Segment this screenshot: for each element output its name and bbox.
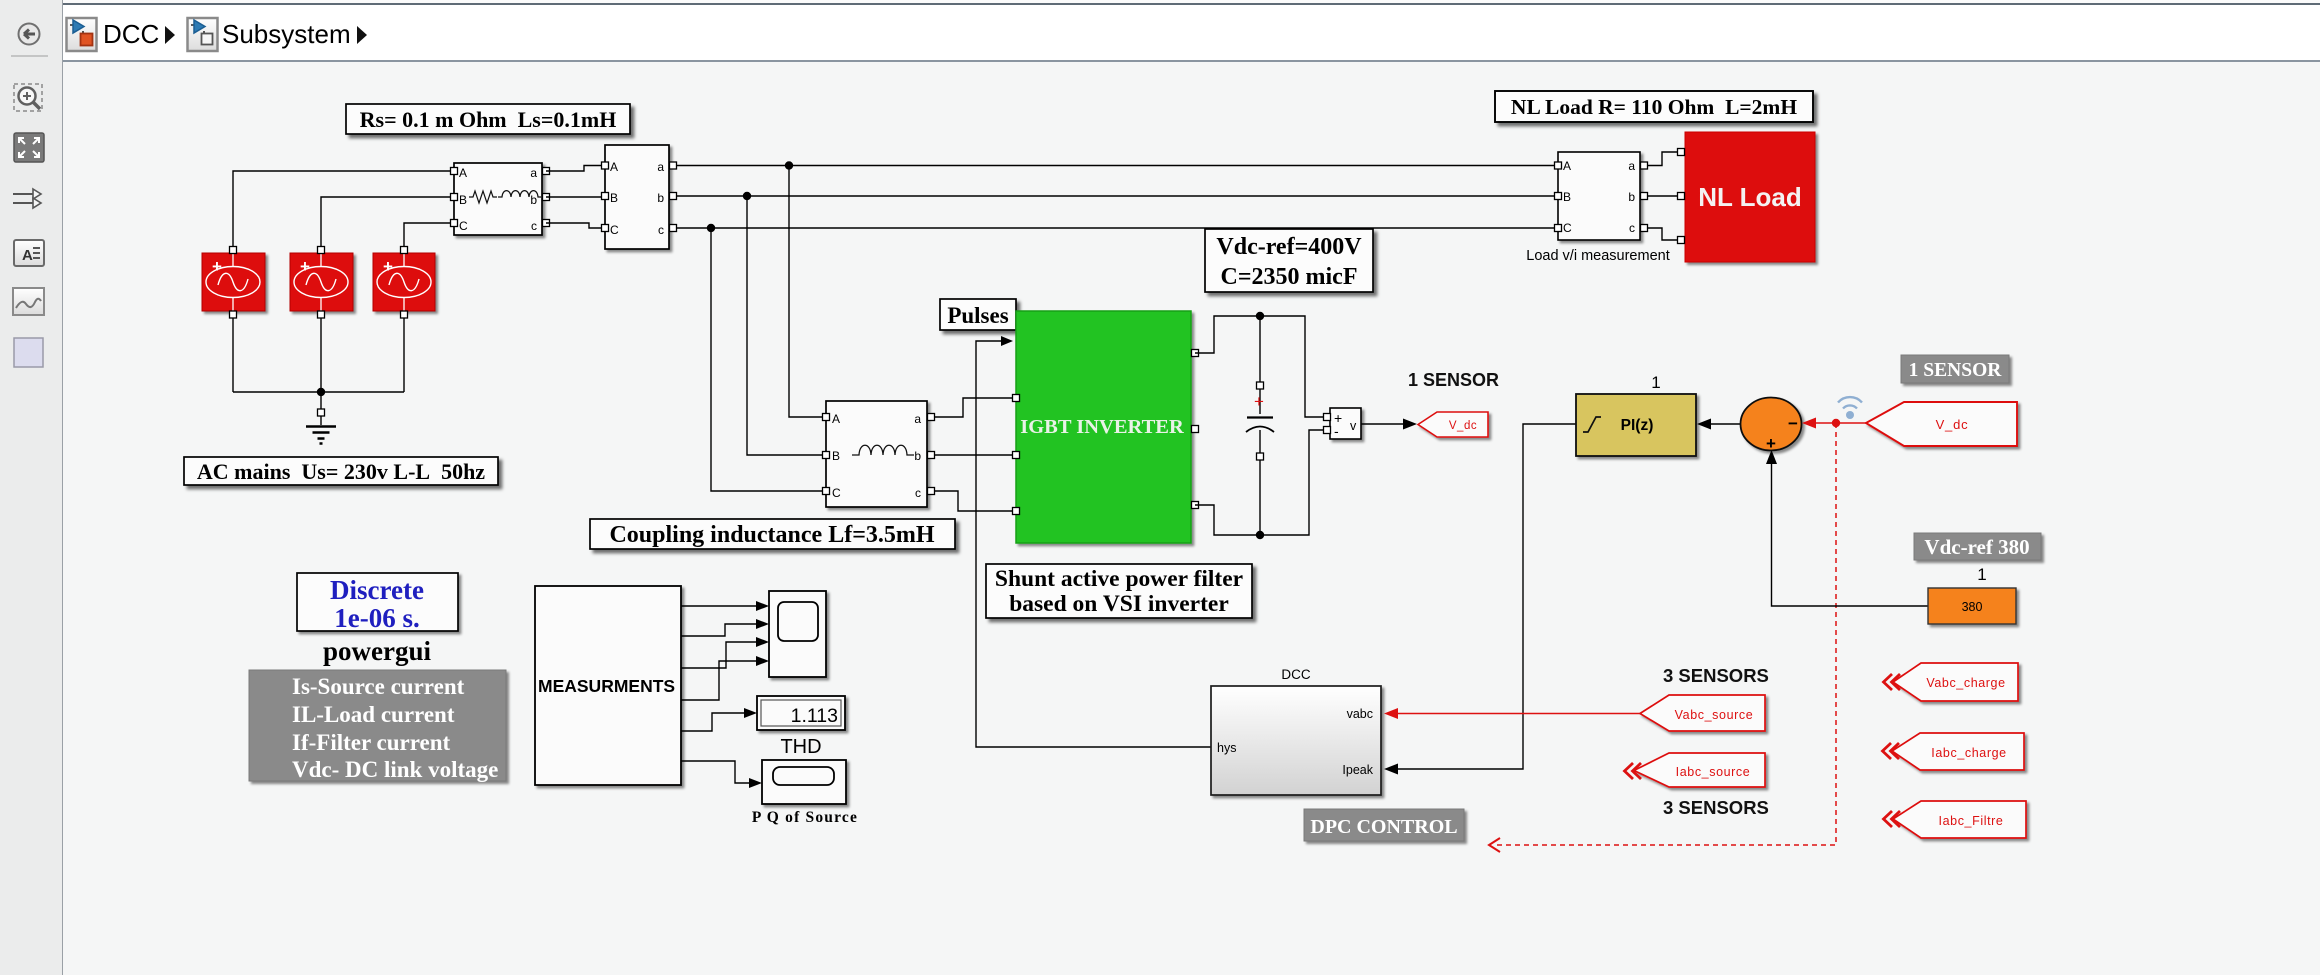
- from tag Iabc_source: [1625, 753, 1766, 787]
- toolbar signal-lines icon: [13, 189, 41, 208]
- svg-text:+: +: [1254, 392, 1264, 411]
- toolbar back button: [19, 24, 40, 45]
- svg-text:a: a: [530, 166, 537, 180]
- svg-text:a: a: [914, 412, 921, 426]
- wifi logging badge: [1838, 397, 1862, 419]
- svg-text:PI(z): PI(z): [1621, 417, 1654, 434]
- label Shunt active power filter based on VSI inverter: [986, 564, 1252, 618]
- from tag V_dc big: [1866, 402, 2017, 446]
- wire v to V_dc goto: [1361, 423, 1404, 425]
- wire MEAS out6 to PQ scope: [681, 761, 750, 783]
- svg-text:B: B: [1563, 190, 1571, 204]
- svg-text:B: B: [459, 193, 467, 207]
- svg-text:-: -: [1334, 423, 1339, 439]
- toolbar annotation icon: [14, 240, 44, 266]
- svg-text:Ipeak: Ipeak: [1342, 763, 1373, 777]
- svg-text:c: c: [531, 219, 537, 233]
- svg-text:NL Load: NL Load: [1698, 182, 1802, 212]
- svg-text:Coupling inductance Lf=3.5mH: Coupling inductance Lf=3.5mH: [609, 522, 934, 548]
- svg-text:IL-Load current: IL-Load current: [292, 702, 455, 727]
- red arrowhead vabc: [1384, 708, 1398, 719]
- wire b to coupling B: [747, 196, 822, 455]
- junction capacitor bottom: [1256, 531, 1264, 539]
- svg-text:b: b: [530, 193, 537, 207]
- port square sources: [230, 247, 408, 417]
- wire load b to NL Load: [1647, 195, 1678, 197]
- junction a: [785, 161, 793, 169]
- goto tag V_dc: [1418, 412, 1488, 437]
- junction sources neutral: [317, 388, 325, 396]
- svg-text:C: C: [610, 223, 619, 237]
- svg-text:Iabc_charge: Iabc_charge: [1931, 746, 2006, 760]
- svg-text:C: C: [459, 219, 468, 233]
- wire a to coupling A: [789, 166, 822, 418]
- AC source V3: [373, 253, 435, 311]
- arrowhead into PI: [1697, 419, 1711, 430]
- svg-text:A: A: [832, 412, 840, 426]
- three-phase VI measurement source: [602, 145, 677, 249]
- svg-text:+: +: [383, 257, 393, 276]
- svg-text:C: C: [832, 486, 841, 500]
- toolbar area icon: [14, 338, 43, 367]
- wire load a to NL Load: [1647, 152, 1678, 166]
- svg-text:THD: THD: [780, 736, 821, 758]
- svg-text:Iabc_source: Iabc_source: [1676, 765, 1751, 779]
- label NL Load R= 110 Ohm L=2mH: [1495, 91, 1813, 122]
- svg-text:C=2350 micF: C=2350 micF: [1221, 264, 1358, 290]
- wire DCC hys to IGBT pulses: [976, 341, 1211, 747]
- junction red V_dc: [1832, 419, 1840, 427]
- wire RLC b to VI1 B: [546, 196, 601, 198]
- svg-text:If-Filter current: If-Filter current: [292, 730, 451, 755]
- svg-text:b: b: [914, 449, 921, 463]
- svg-text:A: A: [459, 166, 467, 180]
- svg-text:IGBT INVERTER: IGBT INVERTER: [1020, 416, 1184, 438]
- wire phase a: [676, 165, 1554, 167]
- svg-text:DCC: DCC: [103, 19, 159, 49]
- voltage measurement block: [1324, 408, 1362, 439]
- svg-text:a: a: [1628, 159, 1635, 173]
- label AC mains Us= 230v L-L 50hz: [184, 457, 498, 485]
- svg-text:Vdc- DC link voltage: Vdc- DC link voltage: [292, 757, 498, 782]
- wire source1 to RLC A: [233, 171, 450, 250]
- from tag Vabc_source: [1640, 695, 1765, 731]
- svg-text:Iabc_Filtre: Iabc_Filtre: [1939, 814, 2004, 828]
- svg-text:Shunt active power filter: Shunt active power filter: [995, 566, 1243, 592]
- wire MEAS out5 to display: [681, 713, 745, 731]
- wire source2 to RLC B: [321, 197, 450, 250]
- svg-text:Pulses: Pulses: [947, 303, 1008, 328]
- breadcrumb DCC icon: [67, 18, 97, 51]
- junction b: [743, 192, 751, 200]
- wire phase b: [676, 195, 1554, 197]
- load v/i measurement block: [1555, 152, 1648, 240]
- svg-text:b: b: [1628, 190, 1635, 204]
- svg-text:V_dc: V_dc: [1449, 420, 1477, 432]
- svg-text:DCC: DCC: [1281, 667, 1310, 682]
- arrowhead pulses: [1001, 336, 1013, 346]
- wire sum to PI: [1709, 423, 1741, 425]
- from tag Iabc_Filtre: [1884, 801, 2027, 838]
- svg-text:Vdc-ref 380: Vdc-ref 380: [1924, 535, 2029, 559]
- toolbar zoom icon: [14, 84, 42, 111]
- display THD block: [757, 696, 845, 730]
- breadcrumb arrow 2: [357, 26, 367, 44]
- MEASURMENTS block: [535, 586, 681, 785]
- svg-text:1 SENSOR: 1 SENSOR: [1408, 370, 1499, 390]
- AC source V2: [290, 253, 353, 311]
- svg-text:A: A: [22, 247, 33, 264]
- red wire Vabc_source to DCC vabc: [1396, 713, 1640, 715]
- svg-text:1: 1: [1977, 565, 1986, 584]
- NL Load block: [1678, 132, 1816, 262]
- label Vdc-ref=400V C=2350 micF: [1205, 229, 1373, 292]
- label Coupling inductance Lf=3.5mH: [590, 519, 955, 549]
- constant 380 block: [1928, 588, 2016, 624]
- svg-text:B: B: [832, 449, 840, 463]
- wire phase c: [676, 227, 1554, 229]
- wire MEAS out4 to scope: [681, 661, 757, 700]
- svg-text:Discrete: Discrete: [330, 575, 424, 605]
- DCC control block: [1211, 686, 1381, 795]
- svg-text:DPC CONTROL: DPC CONTROL: [1310, 816, 1457, 838]
- PQ scope block: [762, 760, 846, 804]
- svg-text:C: C: [1563, 221, 1572, 235]
- breadcrumb bar: [63, 0, 2320, 3]
- three-phase series RLC branch: [451, 163, 550, 235]
- junction c: [707, 224, 715, 232]
- wire 380 to sum: [1772, 462, 1929, 606]
- wire load c to NL Load: [1647, 228, 1678, 240]
- label Pulses: [940, 299, 1016, 330]
- coupling inductance block: [823, 401, 935, 507]
- wire coupling b to IGBT: [934, 454, 1012, 456]
- svg-text:based on VSI inverter: based on VSI inverter: [1009, 591, 1229, 617]
- red dashed arrowhead: [1489, 838, 1500, 852]
- arrowhead Ipeak: [1384, 764, 1398, 775]
- svg-text:1.113: 1.113: [791, 705, 838, 727]
- arrowhead into sum plus: [1766, 450, 1777, 464]
- svg-text:1e-06 s.: 1e-06 s.: [334, 603, 419, 633]
- breadcrumb Subsystem icon: [188, 18, 218, 51]
- svg-text:−: −: [1788, 414, 1798, 433]
- svg-text:Load v/i measurement: Load v/i measurement: [1526, 248, 1669, 264]
- toolbar fit-to-view icon: [14, 133, 44, 162]
- legend gray box: [249, 670, 506, 782]
- label DPC CONTROL: [1304, 809, 1464, 841]
- toolbar sidebar: [0, 0, 63, 975]
- wire MEAS out2 to scope: [681, 624, 757, 636]
- svg-text:Vabc_charge: Vabc_charge: [1926, 676, 2005, 690]
- svg-text:B: B: [610, 191, 618, 205]
- wire coupling c to IGBT: [934, 491, 1012, 511]
- svg-text:Is-Source current: Is-Source current: [292, 674, 465, 699]
- toolbar image icon: [13, 288, 44, 315]
- wire coupling a to IGBT: [934, 398, 1012, 417]
- label Rs= 0.1 m Ohm Ls=0.1mH: [346, 104, 630, 134]
- svg-text:Rs= 0.1 m Ohm Ls=0.1mH: Rs= 0.1 m Ohm Ls=0.1mH: [360, 107, 617, 132]
- svg-text:V_dc: V_dc: [1936, 417, 1969, 432]
- svg-text:b: b: [657, 191, 664, 205]
- svg-text:3 SENSORS: 3 SENSORS: [1663, 797, 1769, 818]
- capacitor branch: [1246, 316, 1274, 535]
- svg-text:A: A: [1563, 159, 1571, 173]
- junction capacitor top: [1256, 312, 1264, 320]
- wire sources bottoms to ground node: [233, 314, 404, 409]
- wire MEAS out1 to scope: [681, 605, 757, 607]
- red arrowhead into sum: [1802, 418, 1816, 429]
- AC source V1: [202, 253, 265, 311]
- toolbar separator: [11, 55, 48, 57]
- wire c to coupling C: [711, 228, 822, 491]
- ground: [306, 416, 336, 444]
- wire IGBT top to capacitor and v+: [1195, 316, 1323, 417]
- svg-text:+: +: [212, 257, 222, 276]
- from tag Vabc_charge: [1884, 663, 2019, 701]
- svg-text:v: v: [1350, 419, 1357, 433]
- sum block: [1741, 398, 1802, 454]
- svg-text:Subsystem: Subsystem: [222, 19, 351, 49]
- svg-text:Vdc-ref=400V: Vdc-ref=400V: [1216, 234, 1362, 260]
- svg-text:Vabc_source: Vabc_source: [1675, 708, 1754, 722]
- svg-text:1 SENSOR: 1 SENSOR: [1909, 360, 2003, 381]
- from tag Iabc_charge: [1883, 733, 2025, 770]
- text 1 SENSOR gray label: [1901, 355, 2009, 383]
- svg-text:c: c: [1629, 221, 1635, 235]
- svg-text:AC mains Us= 230v L-L 50hz: AC mains Us= 230v L-L 50hz: [197, 459, 485, 484]
- svg-text:hys: hys: [1217, 741, 1236, 755]
- wire IGBT bottom to capacitor and v-: [1195, 430, 1323, 535]
- svg-text:+: +: [300, 257, 310, 276]
- label Vdc-ref 380: [1914, 533, 2041, 560]
- svg-text:380: 380: [1962, 600, 1983, 614]
- red wire V_dc tag to sum minus: [1814, 422, 1866, 424]
- svg-text:vabc: vabc: [1347, 707, 1373, 721]
- wire PI out to DCC Ipeak: [1396, 424, 1576, 769]
- wire RLC c to VI1 C: [546, 223, 601, 228]
- wire MEAS out3 to scope: [681, 642, 757, 668]
- svg-text:A: A: [610, 160, 618, 174]
- svg-text:1: 1: [1651, 373, 1660, 392]
- wire source3 to RLC C: [404, 223, 450, 250]
- scope block: [769, 591, 826, 677]
- svg-text:+: +: [1766, 434, 1776, 453]
- wire RLC a to VI1 A: [546, 166, 601, 172]
- svg-text:c: c: [658, 223, 664, 237]
- breadcrumb arrow 1: [165, 26, 175, 44]
- svg-text:a: a: [657, 160, 664, 174]
- PI(z) block: [1576, 394, 1696, 456]
- svg-text:MEASURMENTS: MEASURMENTS: [538, 676, 675, 696]
- svg-text:c: c: [915, 486, 921, 500]
- red dashed feedback wire: [1497, 423, 1836, 845]
- arrowhead into V_dc goto: [1403, 419, 1417, 430]
- svg-text:NL Load R= 110 Ohm L=2mH: NL Load R= 110 Ohm L=2mH: [1511, 95, 1797, 119]
- svg-text:powergui: powergui: [323, 636, 431, 666]
- IGBT inverter block: [1013, 311, 1199, 543]
- svg-text:P Q of Source: P Q of Source: [752, 809, 858, 826]
- svg-text:3 SENSORS: 3 SENSORS: [1663, 665, 1769, 686]
- powergui block Discrete 1e-06 s.: [297, 573, 458, 633]
